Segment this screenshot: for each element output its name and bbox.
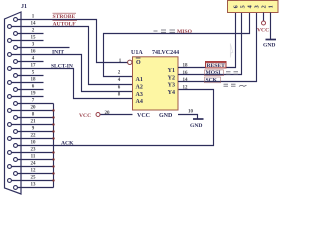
J1 pin numbers	[31, 15, 37, 188]
connector J1 body	[5, 12, 22, 194]
svg-text:STROBE: STROBE	[53, 14, 76, 20]
wire STROBE J1.1 to U1 OE bubble	[18, 20, 129, 63]
svg-text:4: 4	[247, 5, 254, 8]
MISO wire tick marks	[154, 30, 176, 32]
power symbol VCC at U1 pin20	[79, 113, 100, 120]
svg-text:12: 12	[183, 85, 189, 90]
svg-text:15: 15	[31, 36, 37, 41]
wire ACK J1.10 to U1 Y4	[18, 90, 214, 146]
svg-text:Y4: Y4	[168, 90, 175, 96]
U1A left pin numbers 1,2,4,6,8	[118, 59, 122, 98]
svg-text:INIT: INIT	[52, 50, 64, 56]
U1A right pin numbers 18,16,14,12	[183, 63, 189, 90]
MOSI tick marks	[226, 72, 238, 74]
net label AUTOLF	[53, 21, 78, 28]
svg-text:AUTOLF: AUTOLF	[53, 22, 77, 28]
U1A part number 74LVC244	[152, 50, 179, 56]
U1 pin10 number	[188, 110, 194, 115]
svg-text:MISO: MISO	[177, 29, 193, 35]
svg-text:14: 14	[31, 22, 37, 27]
svg-text:VCC: VCC	[137, 113, 150, 119]
svg-text:16: 16	[31, 50, 37, 55]
junction dots on ground bus	[52, 109, 54, 181]
svg-text:VCC: VCC	[257, 28, 269, 34]
power symbol VCC at ISP pin2	[257, 21, 269, 34]
U1A output pin names Y1-Y4	[168, 68, 175, 96]
J1 pin circles	[8, 18, 18, 190]
wire SLCT-IN J1.17 to U1 A4	[12, 69, 133, 99]
svg-text:Y2: Y2	[168, 76, 175, 82]
SCK tick marks	[224, 84, 247, 86]
wire stub J1.6	[18, 89, 44, 91]
wire stub J1.22	[12, 138, 54, 140]
U1A OE inversion bubble	[128, 60, 132, 64]
svg-text:A3: A3	[136, 92, 143, 98]
J1 refdes label	[21, 4, 27, 10]
svg-text:U1A: U1A	[131, 50, 143, 56]
U1A input pin names A1-A4	[136, 77, 143, 105]
net label STROBE	[53, 13, 77, 20]
svg-text:19: 19	[31, 92, 37, 97]
svg-text:10: 10	[31, 141, 37, 146]
wire stub J1.21	[12, 124, 54, 126]
svg-text:21: 21	[31, 120, 37, 125]
svg-text:10: 10	[188, 110, 194, 115]
wire stub J1.9	[18, 131, 54, 133]
wire stub J1.20	[12, 110, 54, 112]
svg-text:74LVC244: 74LVC244	[152, 50, 179, 56]
net label MISO	[177, 29, 193, 35]
wire stub J1.25	[12, 180, 54, 182]
net label SCK	[205, 77, 221, 83]
wire stub J1.8	[18, 117, 54, 119]
wire stub J1.4	[18, 61, 44, 63]
wire Y3 to ISP pin3 (SCK)	[178, 13, 257, 82]
wire ground bus vertical	[53, 104, 55, 188]
svg-text:11: 11	[31, 155, 36, 160]
wire stub J1.5	[18, 75, 44, 77]
wire stub J1.12	[18, 173, 54, 175]
wire INIT J1.16 to U1 A3	[12, 55, 133, 92]
svg-text:3: 3	[254, 5, 261, 8]
svg-text:A4: A4	[136, 99, 143, 105]
wire stub J1.13	[18, 187, 54, 189]
connector J2 ISP header body	[228, 1, 279, 13]
svg-text:VCC: VCC	[79, 113, 91, 119]
svg-text:2: 2	[261, 5, 268, 8]
ground symbol at U1 pin10	[190, 119, 204, 129]
svg-text:20: 20	[105, 111, 111, 116]
port RESET	[206, 62, 227, 70]
ground symbol at ISP pin1	[263, 40, 276, 49]
wire stub J1.3	[18, 47, 70, 49]
net label SLCT-IN	[51, 64, 73, 70]
wire stub J1.2	[18, 33, 44, 35]
J2 pin numbers 6..1 rotated	[233, 5, 275, 8]
svg-text:GND: GND	[190, 123, 202, 129]
wire U1 pin20 VCC stub	[100, 114, 133, 116]
svg-text:Y3: Y3	[168, 83, 175, 89]
wire AUTOLF J1.14 to U1 A2	[12, 27, 133, 85]
U1A power pin names VCC GND below body	[137, 113, 173, 119]
svg-text:GND: GND	[263, 43, 275, 49]
wire MISO from ISP pin4 to U1 A1	[104, 13, 250, 77]
net label INIT	[52, 50, 64, 56]
svg-text:A1: A1	[136, 77, 143, 83]
net label ACK	[61, 141, 74, 147]
wire stub J1.7	[18, 103, 54, 105]
svg-text:GND: GND	[159, 113, 173, 119]
wire ISP pin2 VCC stub	[263, 13, 265, 22]
svg-text:5: 5	[240, 5, 247, 8]
svg-text:O: O	[136, 60, 141, 66]
svg-text:24: 24	[31, 162, 37, 167]
svg-text:J1: J1	[21, 4, 27, 10]
svg-text:A2: A2	[136, 85, 143, 91]
svg-text:6: 6	[233, 5, 240, 8]
svg-text:13: 13	[31, 183, 37, 188]
wire Y2 to ISP pin5 (MOSI)	[178, 13, 242, 75]
svg-text:22: 22	[31, 134, 37, 139]
U1A OE pin name	[136, 58, 141, 66]
U1 pin20 number	[105, 111, 111, 116]
wire stub J1.19	[12, 96, 44, 98]
wire stub J1.15	[12, 40, 44, 42]
svg-text:SLCT-IN: SLCT-IN	[51, 64, 73, 70]
svg-text:20: 20	[31, 106, 37, 111]
svg-text:RESET: RESET	[207, 63, 226, 69]
svg-text:1: 1	[268, 5, 275, 8]
svg-text:MOSI: MOSI	[206, 70, 221, 76]
wire stub J1.11	[18, 159, 54, 161]
svg-text:17: 17	[31, 64, 37, 69]
U1A refdes label	[131, 50, 143, 56]
wire stub J1.18	[12, 82, 44, 84]
wire stub J1.24	[12, 166, 54, 168]
svg-text:25: 25	[31, 176, 37, 181]
svg-text:Y1: Y1	[168, 68, 175, 74]
svg-text:SCK: SCK	[206, 77, 218, 83]
svg-text:12: 12	[31, 169, 37, 174]
net label MOSI	[205, 70, 224, 76]
wire ISP pin1 GND stub	[270, 13, 272, 40]
buffer U1A 74LVC244 body	[133, 57, 179, 110]
mouse cursor ghost	[230, 44, 233, 58]
wire Y1 to ISP pin6 (RESET)	[178, 13, 236, 68]
svg-text:ACK: ACK	[61, 141, 74, 147]
svg-text:18: 18	[31, 78, 37, 83]
wire stub J1.23	[12, 152, 54, 154]
svg-text:23: 23	[31, 148, 37, 153]
wire U1 pin10 GND stub	[178, 115, 198, 119]
